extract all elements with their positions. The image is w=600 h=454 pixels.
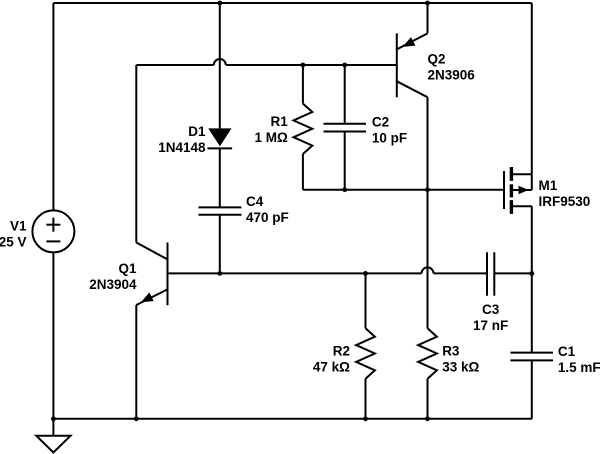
svg-text:2N3904: 2N3904 [89,277,137,292]
ground [52,419,54,436]
svg-text:V1: V1 [10,218,27,233]
svg-text:33 kΩ: 33 kΩ [442,359,479,374]
svg-text:R2: R2 [333,343,350,358]
node R2 top junction [363,271,368,276]
wire right rail (M1 drain down to C1) [531,206,533,352]
svg-text:17 nF: 17 nF [473,318,508,333]
node Q1 emitter bottom junction [134,416,139,421]
node R1 top junction [301,63,306,68]
svg-text:2N3906: 2N3906 [428,67,476,82]
svg-text:1 MΩ: 1 MΩ [254,130,288,145]
node top Q2 emitter junction [425,1,430,6]
svg-text:Q2: Q2 [428,51,446,66]
svg-text:R3: R3 [442,343,460,358]
wire Q2 collector vertical [427,97,429,190]
transistor Q2 [396,33,398,97]
capacitor C1 [510,352,553,354]
node ground junction [51,416,56,421]
node Q2 collector junction [425,187,430,192]
wire R3 vertical top (from mid wire through hop) [427,190,429,329]
svg-text:1.5 mF: 1.5 mF [558,360,600,375]
resistor R2 [356,328,375,378]
node C2 top junction [342,63,347,68]
svg-text:C4: C4 [246,194,264,209]
svg-text:C1: C1 [558,344,576,359]
wire D1 to C4 [219,148,221,207]
wire bottom rail [53,418,531,420]
node C3 right junction [529,271,534,276]
svg-text:IRF9530: IRF9530 [539,194,591,209]
svg-text:47 kΩ: 47 kΩ [313,359,350,374]
wire top rail [53,2,531,4]
wire Q1 emitter vertical [135,305,137,419]
wire Q1 collector vertical [135,65,137,243]
wire left rail lower (V1 to bottom) [52,252,54,418]
wire Q2 base / R1 C2 top (y=65, hop over D1 column) [136,64,214,66]
svg-text:C2: C2 [372,115,389,130]
node R2 bottom junction [363,416,368,421]
capacitor C4 [199,206,242,208]
wire right rail upper (to M1 source) [531,3,533,174]
svg-text:Q1: Q1 [118,261,137,276]
svg-text:470 pF: 470 pF [246,210,289,225]
wire left rail upper (top to V1) [52,3,54,211]
wire R2 vertical top [365,273,367,328]
wire mid horizontal (R1/C2 bottom to M1 gate) [303,189,504,191]
wire Q2 emitter vertical [427,3,429,33]
svg-text:10 pF: 10 pF [372,131,407,146]
svg-text:C3: C3 [482,302,500,317]
voltage source V1 [32,210,74,252]
svg-text:R1: R1 [271,114,289,129]
wire C4 to base wire [219,215,221,274]
svg-text:25 V: 25 V [0,234,27,249]
wire Q1 base horizontal (to C3, hop over R3 column) [168,272,422,274]
diode D1 [208,128,231,146]
capacitor C2 [344,65,346,124]
node C2 bottom junction [342,187,347,192]
node C4 bottom junction [217,271,222,276]
node R3 bottom junction [425,416,430,421]
node top D1 junction [217,1,222,6]
svg-text:1N4148: 1N4148 [158,140,206,155]
diode D1 column wire (top rail to D1) [219,3,221,128]
svg-text:D1: D1 [188,124,206,139]
resistor R1 [302,65,304,104]
svg-text:M1: M1 [539,178,558,193]
mosfet M1 [503,171,505,209]
capacitor C3 [486,252,488,295]
transistor Q1 [167,243,169,306]
resistor R3 [418,328,437,378]
